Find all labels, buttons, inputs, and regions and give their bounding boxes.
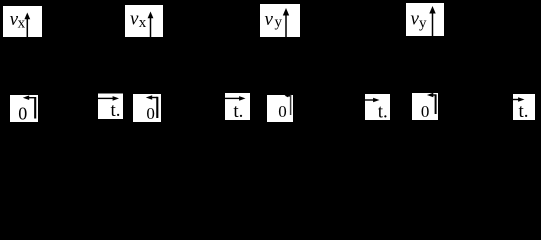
graph 4 origin 0 label box xyxy=(412,93,438,121)
graph 2 v_x axis label box xyxy=(125,5,163,37)
graph 1 x-axis right arrow xyxy=(98,96,119,101)
graph 2 x-axis right arrow xyxy=(225,96,246,101)
svg-text:t.: t. xyxy=(378,102,388,123)
graph 3 x-axis right arrow xyxy=(365,98,380,103)
svg-text:0: 0 xyxy=(278,102,287,121)
graph 4 x-axis right arrow xyxy=(513,97,525,102)
graph 3 t axis label box xyxy=(365,94,390,123)
svg-text:0: 0 xyxy=(421,102,430,121)
svg-text:v: v xyxy=(265,9,274,30)
svg-text:0: 0 xyxy=(18,104,27,124)
graph 2 t axis label box xyxy=(225,93,250,122)
graph 2 origin 0 label box xyxy=(133,94,161,123)
graph 3 origin 0 label box xyxy=(267,95,293,122)
graph 3 axis corner mark (small left arrow + y-axis line) xyxy=(285,94,291,115)
graph 2 y-axis up arrow xyxy=(148,12,154,38)
graph 1 y-axis up arrow xyxy=(24,13,30,38)
svg-text:v: v xyxy=(130,9,139,30)
graph 4 axis corner mark (left arrow + y-axis line) xyxy=(427,93,436,114)
graph 3 v_y axis label box xyxy=(260,4,300,37)
svg-text:x: x xyxy=(139,15,147,31)
graph 4 t axis label box xyxy=(513,94,535,122)
svg-text:y: y xyxy=(275,14,283,30)
graph 1 v_x axis label box xyxy=(3,6,42,37)
svg-text:t.: t. xyxy=(519,101,529,122)
graph 1 axis corner mark (left arrow + y-axis line) xyxy=(23,95,35,118)
svg-text:t.: t. xyxy=(111,100,121,121)
graph 3 y-axis up arrow xyxy=(283,8,289,37)
svg-text:y: y xyxy=(419,16,427,32)
graph 2 axis corner mark (left arrow + y-axis line) xyxy=(146,95,158,118)
graph 4 y-axis up arrow xyxy=(429,6,435,36)
graph 4 v_y axis label box xyxy=(406,3,444,36)
graph 1 t axis label box xyxy=(98,94,123,121)
graph 1 origin 0 label box xyxy=(10,95,38,124)
svg-text:t.: t. xyxy=(233,101,243,122)
svg-text:0: 0 xyxy=(146,104,155,123)
svg-text:x: x xyxy=(18,16,26,32)
